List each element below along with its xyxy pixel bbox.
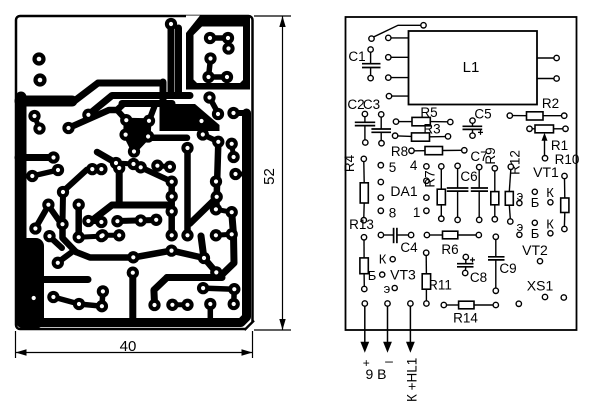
wire pad2 up link — [149, 105, 155, 121]
svg-text:XS1: XS1 — [527, 278, 554, 294]
blob bottom-left ground — [16, 238, 45, 329]
svg-text:R7: R7 — [423, 170, 438, 187]
blob center — [160, 104, 220, 131]
svg-text:1: 1 — [413, 205, 421, 220]
node L1 pin pads left — [386, 35, 391, 40]
wire left edge ground — [16, 97, 27, 248]
svg-text:Б: Б — [531, 195, 540, 210]
wire bend to bottom pad — [154, 278, 167, 304]
resistor R4 — [342, 154, 368, 223]
node pad pair low mid — [110, 157, 122, 169]
wire bus y220 — [117, 220, 156, 221]
wire L1 pin4 — [392, 95, 409, 97]
node pads bottom row — [148, 299, 160, 311]
svg-text:Б: Б — [368, 268, 377, 283]
node pads right mid cluster — [210, 175, 222, 187]
node pads bus row — [111, 215, 123, 227]
wire vertical right mid — [168, 183, 175, 235]
wire vertical — [75, 206, 82, 236]
dim line 40 — [16, 352, 253, 354]
node pad holes (drill) — [37, 57, 42, 62]
IC DA1 pads and labels — [378, 158, 429, 221]
wire T junction — [90, 170, 168, 222]
extension line right-down — [252, 331, 254, 358]
svg-text:C4: C4 — [400, 240, 418, 255]
capacitor C4 — [378, 228, 418, 255]
wire link — [216, 234, 232, 235]
wire short vertical stub — [201, 236, 204, 255]
svg-text:R6: R6 — [441, 242, 458, 257]
svg-text:5: 5 — [389, 160, 397, 175]
node pads left mid row — [28, 110, 40, 122]
wire branch to triangle pad — [117, 110, 126, 120]
wire pad pair — [103, 233, 120, 238]
trimmer R1 — [527, 125, 568, 161]
svg-text:40: 40 — [120, 338, 137, 355]
wire pair — [157, 166, 170, 167]
svg-text:Б: Б — [531, 226, 540, 241]
svg-text:R1: R1 — [551, 138, 568, 153]
transistor VT3 — [368, 252, 416, 297]
wire bar below blob — [152, 135, 187, 142]
wire diag to pad — [58, 252, 72, 263]
transistor VT1 — [517, 164, 559, 210]
svg-text:C5: C5 — [474, 107, 491, 122]
capacitor C5 — [463, 107, 492, 139]
wire zigzag left — [63, 226, 77, 252]
node pads center row — [86, 163, 98, 175]
capacitor C3 — [363, 97, 391, 146]
corner cut bottom-right — [245, 321, 256, 332]
wire bottom chain — [76, 251, 216, 273]
resistor R7 — [423, 164, 446, 222]
wire link below ring — [210, 98, 219, 114]
wire right edge band — [36, 113, 247, 323]
wire ring pads links — [209, 38, 229, 77]
svg-text:4: 4 — [410, 158, 418, 173]
wire pair right — [232, 144, 234, 157]
wire diag link low — [97, 152, 116, 163]
node pads right column — [166, 176, 178, 188]
connector XS1 — [516, 278, 566, 307]
svg-text:э: э — [384, 281, 391, 296]
wire link pair — [88, 221, 101, 222]
extension line left-down — [15, 331, 17, 358]
wire L1 right pin2 — [537, 78, 554, 80]
resistor R12 — [505, 150, 522, 224]
resistor R9 — [483, 147, 499, 222]
wire vertical to bottom band — [129, 274, 136, 322]
wire diag — [48, 206, 60, 223]
wire diag into vertical — [190, 198, 217, 224]
wire horizontal y95 — [88, 96, 190, 115]
node pads bottom chain — [127, 251, 139, 263]
wire left top bar thick — [20, 96, 72, 107]
wire arrow plus — [365, 306, 411, 343]
wire link to band col — [216, 209, 232, 212]
svg-text:9 В: 9 В — [365, 366, 386, 382]
node L1 pin pads right — [554, 55, 559, 60]
extension line bottom-right — [254, 329, 291, 331]
wire link under blob — [203, 135, 219, 142]
svg-text:–: – — [385, 353, 393, 369]
node diag pad — [369, 36, 374, 41]
svg-text:8: 8 — [389, 206, 397, 221]
node pads triangle cluster — [120, 114, 132, 126]
coil L1 — [409, 31, 538, 105]
resistor R2 — [507, 96, 567, 120]
svg-text:R2: R2 — [542, 96, 559, 111]
supply pads — [362, 301, 367, 306]
wire horizontal stub blob — [42, 276, 88, 283]
node isolated pads top-left — [32, 52, 45, 65]
wire short vertical — [160, 82, 167, 106]
blob triangle cluster — [126, 120, 149, 151]
wire from top pad down then left to pad — [168, 27, 175, 92]
svg-text:R8: R8 — [391, 144, 408, 159]
svg-text:R14: R14 — [453, 311, 478, 326]
wire pair low — [116, 163, 134, 164]
wire bar below ring — [175, 28, 182, 93]
capacitor C7 — [470, 149, 488, 223]
svg-text:R4: R4 — [342, 154, 357, 172]
resistor R3 — [392, 122, 450, 142]
svg-text:VT2: VT2 — [522, 242, 548, 258]
node pads left cluster — [26, 170, 38, 182]
node top pad — [421, 23, 426, 28]
svg-text:C9: C9 — [499, 261, 516, 276]
wire stub to right band — [234, 110, 246, 116]
svg-text:К: К — [379, 252, 387, 267]
svg-text:C1: C1 — [348, 49, 365, 64]
wire top diagonal — [374, 25, 422, 37]
wire L1 pin2 — [391, 56, 409, 58]
node pads below ring — [203, 91, 215, 103]
svg-text:R10: R10 — [555, 152, 580, 167]
wire diagonal from pad to top bus — [69, 104, 125, 129]
svg-text:C6: C6 — [460, 169, 477, 184]
wire horizontal lower right — [167, 274, 222, 281]
wire L1 pin3 — [391, 77, 409, 79]
arrowheads dim 52 — [279, 16, 285, 27]
panel outline — [346, 17, 577, 330]
wire diag pair — [50, 237, 63, 249]
wire link — [32, 171, 56, 177]
svg-text:К: К — [546, 217, 554, 232]
svg-text:R11: R11 — [428, 278, 452, 293]
wire L1 right pin1 — [537, 57, 554, 59]
svg-text:R12: R12 — [508, 150, 523, 175]
svg-text:DA1: DA1 — [390, 183, 417, 199]
svg-text:C3: C3 — [363, 97, 380, 112]
transistor VT2 pads — [517, 217, 555, 264]
capacitor C6 — [447, 163, 478, 222]
svg-text:L1: L1 — [463, 59, 480, 76]
node pads bottom right — [197, 282, 209, 294]
node pads bottom-left cluster — [52, 257, 64, 269]
wire pair link — [92, 167, 101, 172]
capacitor C1 — [348, 47, 380, 81]
svg-text:C8: C8 — [470, 270, 487, 285]
dim line 52 — [282, 16, 284, 330]
wire stub pad right band — [236, 172, 246, 177]
wire vert from pad — [60, 194, 67, 223]
wire diag up — [64, 170, 88, 192]
wire bottom pads link — [172, 302, 187, 307]
wire link pair2 — [79, 236, 102, 237]
capacitor C9 — [488, 234, 517, 293]
board outline — [16, 16, 253, 329]
svg-text:VT3: VT3 — [390, 267, 416, 283]
resistor R10 — [555, 152, 580, 232]
extension line top — [254, 15, 291, 17]
svg-text:52: 52 — [261, 168, 278, 185]
resistor R13 — [349, 217, 374, 292]
svg-text:К: К — [546, 185, 554, 200]
wire bottom right links — [203, 288, 234, 320]
wire long vertical mid — [184, 150, 191, 235]
resistor R8 — [391, 144, 467, 159]
svg-text:R13: R13 — [349, 217, 374, 232]
wire diag2 — [36, 206, 49, 228]
svg-text:R9: R9 — [483, 147, 498, 164]
wire top-left ground loop — [21, 83, 162, 101]
resistor R11 — [422, 250, 452, 306]
wire band col vertical — [219, 212, 234, 277]
node pads inside ring — [204, 32, 216, 44]
resistor R6 — [424, 231, 481, 257]
arrowheads dim 40 — [16, 349, 27, 355]
ring top-right filled — [186, 16, 250, 90]
wire left stub row — [18, 154, 54, 161]
resistor R14 — [441, 301, 498, 325]
capacitor C8 — [457, 254, 487, 285]
wire center horizontal — [122, 100, 172, 107]
node pad mid right — [181, 142, 193, 154]
wire diag pad link — [141, 167, 171, 181]
svg-text:К +HL1: К +HL1 — [405, 358, 420, 402]
wire right vertical from blob chain — [216, 143, 218, 209]
capacitor C2 — [347, 97, 375, 145]
resistor R5 — [393, 105, 453, 126]
wire pad pair link — [35, 117, 40, 129]
wire bottom left links — [53, 292, 103, 306]
wire L1 pin1 — [391, 37, 409, 39]
node pad top feed — [165, 18, 177, 30]
node pads under blob — [197, 128, 209, 140]
